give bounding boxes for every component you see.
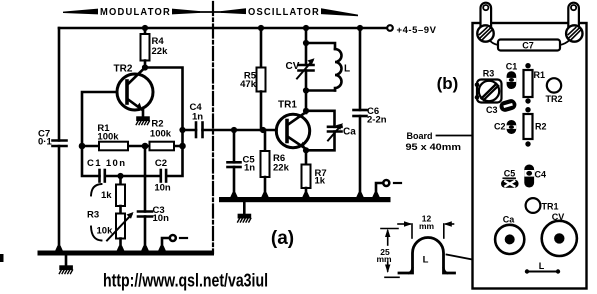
header MODULATOR bar left wedge bbox=[63, 9, 98, 15]
svg-text:MODULATOR: MODULATOR bbox=[100, 7, 171, 18]
svg-text:R3: R3 bbox=[87, 210, 99, 221]
header thin link line across divider bbox=[198, 11, 223, 13]
svg-text:mm: mm bbox=[376, 254, 392, 264]
svg-text:47k: 47k bbox=[240, 79, 257, 90]
svg-text:22k: 22k bbox=[152, 46, 169, 57]
svg-text:1k: 1k bbox=[315, 176, 326, 187]
wire to C1 bbox=[82, 146, 100, 176]
board capacitor C4 bbox=[524, 165, 534, 188]
ground symbol oscillator bbox=[243, 202, 246, 214]
svg-text:TR2: TR2 bbox=[114, 64, 133, 75]
board pointer line bbox=[437, 135, 472, 137]
svg-text:http://www.qsl.net/va3iul: http://www.qsl.net/va3iul bbox=[103, 271, 268, 291]
svg-text:R1: R1 bbox=[534, 70, 546, 80]
capacitor C2 bbox=[145, 175, 161, 178]
inductor L coil bbox=[306, 43, 335, 49]
board wire L bbox=[527, 271, 558, 273]
svg-text:C1 10n: C1 10n bbox=[87, 158, 125, 169]
wire TR1 collector bbox=[305, 91, 308, 114]
svg-text:95 x 40mm: 95 x 40mm bbox=[406, 142, 462, 152]
wire TR1 base line bbox=[203, 129, 277, 132]
board screw right bbox=[566, 25, 582, 41]
resistor R5 bbox=[260, 28, 263, 68]
svg-text:mm: mm bbox=[419, 221, 435, 231]
board outline bbox=[473, 23, 587, 289]
svg-text:L: L bbox=[344, 64, 350, 75]
svg-text:22k: 22k bbox=[273, 163, 290, 174]
svg-text:1n: 1n bbox=[192, 112, 203, 123]
svg-text:L: L bbox=[423, 255, 429, 266]
oscillator output tap bbox=[376, 183, 383, 198]
board capacitor C3 bbox=[498, 98, 517, 113]
svg-text:TR1: TR1 bbox=[278, 100, 297, 111]
variable capacitor Ca bbox=[306, 111, 335, 127]
svg-text:CV: CV bbox=[552, 212, 565, 222]
resistor R6 bbox=[264, 130, 267, 151]
board post right bbox=[568, 3, 579, 28]
ground symbol modulator bbox=[65, 255, 68, 266]
capacitor C7 bbox=[53, 139, 67, 142]
board post left bbox=[481, 3, 492, 28]
modulator output tap bbox=[162, 238, 170, 251]
wire R1 R2 row bbox=[82, 145, 183, 148]
wire center branch bbox=[144, 146, 147, 212]
svg-text:R3: R3 bbox=[483, 69, 495, 79]
svg-text:2-2n: 2-2n bbox=[367, 115, 387, 126]
svg-text:+4-5–9V: +4-5–9V bbox=[397, 25, 437, 36]
board capacitor C2 bbox=[507, 120, 517, 134]
wire left rail upper bbox=[58, 28, 61, 141]
svg-text:C3: C3 bbox=[486, 105, 498, 115]
svg-text:C2: C2 bbox=[155, 158, 167, 169]
board trimmer cap Ca bbox=[495, 225, 524, 254]
svg-text:C7: C7 bbox=[522, 41, 534, 51]
svg-text:CV: CV bbox=[286, 61, 300, 72]
svg-text:R2: R2 bbox=[535, 122, 547, 132]
wire left rail lower bbox=[58, 146, 61, 251]
coil dimension drawing dome L bbox=[399, 238, 455, 274]
svg-text:10k: 10k bbox=[97, 226, 114, 237]
svg-text:10n: 10n bbox=[153, 213, 170, 224]
header MODULATOR bar right wedge bbox=[172, 9, 200, 15]
resistor R1 bbox=[99, 142, 128, 151]
svg-text:TR2: TR2 bbox=[546, 94, 563, 104]
terminal + supply bbox=[387, 25, 393, 31]
divider dash-dot line bbox=[212, 2, 214, 253]
header OSCILLATOR bar left wedge bbox=[221, 8, 246, 14]
resistor R4 bbox=[144, 28, 147, 34]
ground bar modulator bbox=[38, 251, 215, 256]
board capacitor C1 bbox=[507, 71, 517, 89]
capacitor C3 bbox=[138, 210, 152, 213]
svg-text:100k: 100k bbox=[97, 132, 119, 143]
svg-text:TR1: TR1 bbox=[542, 202, 559, 212]
board trimmer cap CV bbox=[542, 221, 577, 256]
header OSCILLATOR bar right wedge bbox=[321, 8, 358, 16]
board trimmer R3 bbox=[477, 80, 502, 103]
capacitor C6 bbox=[359, 28, 362, 110]
ground TR2 emitter bbox=[136, 116, 150, 124]
svg-text:C5: C5 bbox=[504, 169, 516, 179]
board screw left bbox=[477, 25, 493, 41]
resistor R7 bbox=[305, 149, 308, 165]
capacitor C1 bbox=[98, 170, 101, 182]
board capacitor C5 bbox=[503, 177, 515, 179]
wire TR2 base bbox=[82, 92, 117, 146]
capacitor C5 bbox=[233, 130, 236, 162]
svg-text:C4: C4 bbox=[535, 170, 547, 180]
board resistor R1 bbox=[524, 70, 533, 97]
potentiometer R3 10k bbox=[116, 214, 125, 239]
wire top supply rail bbox=[59, 27, 387, 30]
board transistor TR1 bbox=[526, 198, 541, 213]
wire collector node to C4 branch bbox=[145, 68, 183, 147]
board capacitor C7 bbox=[490, 41, 498, 46]
svg-text:0·1: 0·1 bbox=[38, 137, 52, 148]
dim 25mm bbox=[381, 228, 398, 230]
svg-text:1n: 1n bbox=[244, 163, 255, 174]
pointer line dome to board bbox=[447, 255, 525, 270]
svg-text:Ca: Ca bbox=[503, 215, 515, 225]
scan artifact left edge bbox=[0, 254, 4, 262]
svg-text:Ca: Ca bbox=[343, 127, 356, 138]
capacitor C4 bbox=[183, 129, 197, 132]
svg-text:C2: C2 bbox=[494, 122, 506, 132]
brace R3 bbox=[91, 184, 102, 241]
resistor R2 bbox=[150, 142, 175, 151]
svg-text:100k: 100k bbox=[150, 129, 172, 140]
transistor Q TR1 bbox=[276, 114, 309, 147]
dim 12mm bbox=[411, 224, 413, 238]
svg-text:C1: C1 bbox=[506, 62, 518, 72]
svg-text:(a): (a) bbox=[271, 228, 294, 249]
transistor Q TR2 bbox=[117, 74, 153, 110]
tank branch from rail bbox=[305, 28, 308, 65]
svg-text:OSCILLATOR: OSCILLATOR bbox=[248, 7, 320, 18]
svg-text:(b): (b) bbox=[437, 74, 459, 93]
board resistor R2 bbox=[524, 114, 533, 139]
svg-text:1k: 1k bbox=[101, 190, 112, 201]
resistor 1k bbox=[119, 176, 122, 185]
svg-text:Board: Board bbox=[407, 131, 433, 141]
svg-text:10n: 10n bbox=[154, 183, 171, 194]
ground bar oscillator bbox=[219, 197, 391, 202]
svg-text:L: L bbox=[539, 261, 545, 271]
board transistor TR2 bbox=[547, 78, 561, 92]
variable capacitor CV bbox=[299, 64, 314, 67]
